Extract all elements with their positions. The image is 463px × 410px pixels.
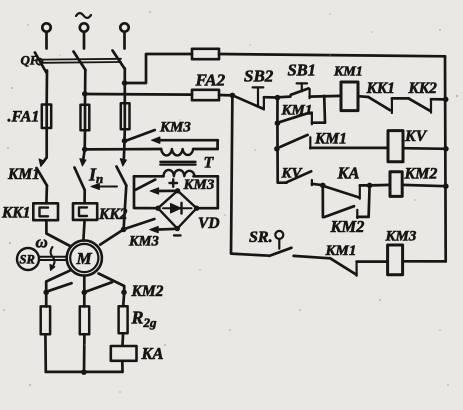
fuse FA1 phase C [123,104,126,130]
node rotor middle [82,290,88,296]
minus sign [174,234,181,236]
contact KM2 rotor 1 [48,283,72,291]
svg-text:KA: KA [337,164,360,183]
contact KM1 main A blade [37,168,47,186]
svg-text:KV: KV [281,166,304,182]
node rotor left [43,290,49,296]
wire phase A QF to FA1 [45,71,48,104]
svg-text:M: M [76,249,93,268]
fuse FA2 [192,90,219,100]
svg-text:KM3: KM3 [183,177,215,193]
svg-text:SB2: SB2 [244,67,274,86]
svg-text:KA: KA [141,344,164,363]
contact KM3 bridge minus [126,219,155,229]
rotor wire left [46,270,70,306]
terminal L1 [42,23,50,31]
arrow phase B fixed contact [80,159,86,166]
svg-text:KM3: KM3 [159,120,191,136]
circuit breaker QF [35,51,125,74]
svg-text:VD: VD [198,215,220,232]
svg-text:SR: SR [20,253,35,267]
wire top rail [219,54,445,56]
wire resistor A down [44,334,47,372]
transformer T secondary [134,175,164,178]
wire KA down [121,361,124,372]
wire phase B QF to FA1 [84,70,87,105]
contact KM1 main B blade [75,168,85,191]
contact KK2 [409,99,430,111]
wire FA2 to rail [219,94,232,97]
contact KM3 T primary [127,130,155,141]
transformer T primary [85,148,161,151]
fuse FA1 phase B [84,105,87,130]
right rail [444,56,447,261]
svg-text:SB1: SB1 [288,61,316,80]
button SB1 [278,95,291,98]
node KM3 T tap [122,138,128,144]
plus sign [170,179,181,235]
wire resistor C down [121,333,124,345]
node rail row2 [443,146,449,152]
node T primary tap [82,147,88,153]
relay coil KA [111,346,137,361]
contact KA [324,186,360,198]
contact KM1 row2 [280,135,307,147]
node row3 join [367,183,373,189]
rectifier loop right [197,176,218,208]
node bridge right [194,206,199,211]
svg-text:KV: KV [404,128,428,145]
contact KK1 [369,97,390,110]
rectifier loop left [134,176,158,208]
arrow Ip [96,186,117,188]
wire A to KK1 [45,186,48,204]
contact KV row3 [287,171,312,182]
coil KM3 [388,245,403,275]
resistor R2g A [41,306,50,334]
contact KM1 row4 [330,258,356,274]
contact KM2 rotor 2 [86,282,112,291]
wire KK2 to motor [83,220,84,241]
terminal L3 [120,23,128,31]
node phase B control tap [82,91,88,97]
svg-text:KM1: KM1 [281,103,313,119]
svg-text:KM2: KM2 [330,217,365,236]
transformer T core [160,161,195,163]
coil KV [388,131,403,162]
node left rail top [230,93,236,99]
svg-text:T: T [204,155,215,172]
wire braking node to motor [100,229,123,244]
button SB2 [234,96,264,109]
node row3 split [320,183,326,189]
svg-text:KM1: KM1 [333,65,363,80]
contact SR row4 [275,231,283,239]
left rail control [231,95,269,255]
rotor star bar [46,371,123,374]
wire phase A to contact [43,129,47,163]
thermal element KK1 [33,203,58,220]
svg-text:KM3: KM3 [385,229,417,245]
thermal element KK2 [73,203,97,220]
contact KM1 aux [276,98,279,124]
shaft [39,256,67,258]
svg-text:KM2: KM2 [131,283,164,300]
node star point [81,369,87,375]
node rail row3 [443,183,449,189]
svg-text:KK1: KK1 [366,80,395,97]
wire L2 stem [83,32,86,49]
node bridge bottom [175,226,180,231]
motor M [67,240,102,275]
tacho SR [17,248,39,270]
rotor wire middle [83,276,86,307]
svg-text:KM2: KM2 [404,166,438,183]
svg-text:KM3: KM3 [128,234,159,250]
node braking tap [121,227,127,233]
svg-text:KM1: KM1 [314,131,347,148]
fuse control top [192,49,219,59]
node bridge top [175,188,180,193]
node rail2 row2 [274,146,280,152]
contact KM1 main C blade [117,167,127,186]
svg-text:QF: QF [21,53,39,68]
coil KM1 [341,82,358,111]
wire KK1 to motor [46,220,71,246]
svg-text:KM1: KM1 [7,166,40,183]
wire KM1 to KK1 [358,95,369,99]
contact KM2 hold branch [321,185,324,217]
wire KM3 to rail [403,260,446,263]
wire phase B to contact [83,130,85,162]
node bridge left [155,206,160,211]
wire B to KK2 [83,190,86,203]
wire phase C QF to FA1 [123,69,126,104]
contact KM3 bridge plus [136,180,156,190]
rotation arrow [51,247,55,267]
rotor wire right [99,274,125,307]
node rotor right [121,290,127,296]
wire L1 stem [45,32,48,49]
coil KM2 [390,172,402,197]
wire FA2 feed [85,93,192,96]
svg-text:ω: ω [36,233,48,252]
terminal L2 [80,23,88,31]
fuse FA1 phase A [45,104,48,130]
svg-text:KK2: KK2 [408,80,438,97]
wire to KM2 coil [370,184,390,187]
resistor R2g C [119,306,128,333]
node phase C control tap [122,80,128,86]
AC supply tilde [76,13,91,18]
wire KV to rail [403,147,446,150]
left rail 2 [277,123,286,183]
resistor R2g B [80,306,89,334]
wire resistor B down [83,334,86,372]
wire L3 stem [123,32,126,49]
svg-text:FA2: FA2 [195,71,226,90]
wire KM2 to rail [402,185,446,186]
svg-text:.FA1: .FA1 [8,109,40,126]
svg-text:KK2: KK2 [98,206,128,223]
svg-text:KM1: KM1 [325,243,357,259]
wire C down to braking node [124,186,127,230]
arrow phase C fixed contact [120,159,126,166]
rectifier bridge VD [158,191,197,229]
wire to control top rail [125,54,192,83]
wire phase C to contact [123,130,125,162]
node rail row1 [443,97,449,103]
node after SB2 [275,95,281,101]
svg-text:SR.: SR. [249,229,273,246]
svg-text:KK1: KK1 [1,205,30,222]
arrow phase A fixed contact [39,159,45,167]
